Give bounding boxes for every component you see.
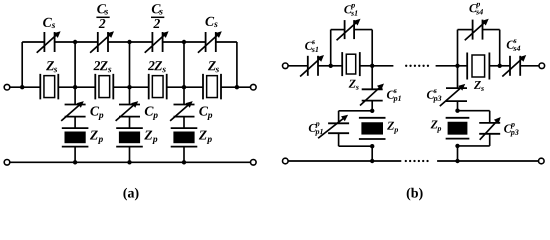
crystal resonator Zp (shunt 1, a) [62,128,89,147]
wire: parallel loop bottom (b right) [458,145,490,147]
terminal: output right (b) main line [539,63,545,69]
variable capacitor Cs4^p (top loop right, b) [465,19,489,41]
junction: bottom rail node 1 (a) [73,160,77,164]
junction: top wire node 2 (a) [127,40,131,44]
crystal resonator Zs #1 (a) [40,74,58,100]
junction: node B (b) [370,64,374,68]
wire: shunt 2 stub main-to-Cp (a) [129,87,131,104]
label Cs (fourth cap, a) [205,17,217,27]
wire: riser at node A (b left loop) [330,30,332,66]
crystal resonator Zs #4 (a) [203,74,221,100]
wire: node B rightward stub (b) [372,65,393,67]
wire: leftward stub of node B-prime (b) [436,65,458,67]
junction: bottom of parallel pair (b left) [370,144,374,148]
variable capacitor Cs (fourth, a) [198,31,222,53]
junction: node A-prime (b) [498,64,502,68]
junction: main line node 4 (a) [235,85,239,89]
wire: riser at node 1 top-to-main (a) [74,42,76,87]
wire: node B down to Cp1s (b) [371,66,373,90]
wire: left riser of top branch (a) [21,42,23,87]
wire: parallel loop top (b left) [339,110,373,112]
variable capacitor Cp1^s (shunt left, b) [360,84,384,106]
label Cp3^p (b) [504,123,518,136]
crystal resonator Zs (b right) [467,53,489,80]
wire: riser at node 3 top-to-main (a) [183,42,185,87]
wire: Cp1s to parallel pair (b left) [371,101,373,111]
junction: top wire node 3 (a) [182,40,186,44]
wire: top loop right segment (b right) [483,29,500,31]
wire: parallel loop lower riser (b left) [338,133,340,146]
label Zs (crystal 1, a) [46,61,57,72]
wire: shunt 1 Cp-to-Zp (a) [74,117,76,129]
wire: shunt 3 stub main-to-Cp (a) [183,87,185,104]
wire: top wire segment 1 right of cap [55,41,76,43]
junction: top of parallel pair (b left) [370,109,374,113]
wire: crystal 2Zs #3 to crystal Zs #4 [167,86,203,88]
wire: parallel loop upper riser (b left) [338,111,340,124]
wire: shunt 3 Zp-to-rail (a) [183,147,185,163]
crystal resonator 2Zs #3 (a) [149,74,167,100]
wire: parallel loop upper riser (b right) [489,111,491,123]
terminal: input left (a) bottom rail [4,160,10,166]
wire: node A to crystal Zs (b left) [331,65,343,67]
wire: riser at node 2 top-to-main (a) [129,42,131,87]
crystal resonator Zp (b right) [446,118,470,139]
label Cp1^s (b) [387,89,401,102]
wire: Cs4s to right terminal (b) [520,65,539,67]
wire: riser at node B-prime (b right loop) [457,30,459,66]
wire: top wire segment 3 right of cap [163,41,184,43]
variable capacitor Cp (shunt 3, a) [170,101,194,121]
wire: top wire segment 4 left of cap [184,41,206,43]
label Zp (b left) [387,122,398,134]
ellipsis dots on main line (b) [405,65,429,67]
junction: bottom of parallel pair (b right) [455,144,459,148]
variable capacitor Cp1^p (parallel, b left) [318,115,349,138]
wire: shunt to bottom rail (b left) [371,146,373,161]
ellipsis dots on bottom rail (b) [405,160,429,162]
wire: parallel loop bottom (b left) [339,145,373,147]
wire: top wire segment 2 left of cap [75,41,98,43]
wire: top wire segment 4 right of cap [216,41,237,43]
terminal: input left (a) main line [4,84,10,90]
label Zp (b right) [431,121,442,133]
label Cs4^s (b) [507,39,521,51]
wire: bottom rail right segment (b) [437,160,538,162]
wire: Cp3s to parallel pair (b right) [457,101,459,111]
variable capacitor Cs1^p (top loop left, b) [337,19,361,41]
junction: bottom rail node 3 (a) [182,160,186,164]
junction: main line node 1 (a) [73,85,77,89]
crystal resonator 2Zs #2 (a) [95,74,113,100]
wire: top wire segment 3 left of cap [130,41,153,43]
wire: left terminal to crystal Zs #1 [10,86,41,88]
wire: node B-prime down to Cp3s (b) [457,66,459,88]
label Cs4^p (b) [469,3,483,15]
label Cp (shunt at node 2, a) [145,107,158,121]
wire: shunt 1 stub main-to-Cp (a) [74,87,76,104]
wire: shunt 1 Zp-to-rail (a) [74,147,76,163]
junction: main line node 0 (a) [20,85,24,89]
label Cs1^s (b) [305,40,318,52]
wire: left terminal to Cs1s (b) [288,65,308,67]
label Cp3^s (b) [427,89,441,102]
wire: shunt to bottom rail (b right) [457,146,459,161]
wire: right riser of top branch (a) [236,42,238,87]
junction: bottom rail node 2 (a) [127,160,131,164]
variable capacitor Cs/2 (second, a) [90,31,114,53]
terminal: output right (b) bottom rail [539,158,545,164]
wire: top loop right segment (b left) [354,29,372,31]
junction: node B-prime (b) [455,64,459,68]
label Zp (shunt at node 1, a) [90,131,103,144]
wire: shunt 2 Zp-to-rail (a) [129,147,131,163]
junction: bottom rail (b left) [370,159,374,163]
caption (b) [407,188,423,201]
variable capacitor Cs1^s (series left, b) [300,55,324,77]
wire: node A-prime to Cs4s (b) [500,65,510,67]
label Cp (shunt at node 1, a) [90,107,103,121]
caption (a) [123,188,138,201]
label Zs (b right) [474,81,484,91]
terminal: output right (a) bottom rail [251,160,257,166]
terminal: output right (a) main line [251,84,257,90]
wire: parallel loop lower riser (b right) [489,134,491,146]
variable capacitor Cp (shunt 2, a) [116,101,140,121]
wire: riser at node B (b left loop) [371,30,373,66]
label Zp (shunt at node 2, a) [144,131,157,144]
label Cs/2 fraction (cap at x=103, a) [97,4,108,28]
junction: node A (b) [329,64,333,68]
label 2Zs (crystal 2, a) [93,61,111,72]
wire: crystal 2Zs #2 to crystal 2Zs #3 [113,86,148,88]
label 2Zs (crystal 3, a) [148,61,166,72]
wire: top loop left segment (b left) [331,29,345,31]
junction: top of parallel pair (b right) [455,109,459,113]
junction: main line node 2 (a) [127,85,131,89]
label Cp (shunt at node 3, a) [199,107,212,121]
wire: crystal Zs #1 to crystal 2Zs #2 [58,86,95,88]
variable capacitor Cp3^s (shunt right, b) [440,84,467,106]
label Zs (crystal 4, a) [208,61,219,72]
label Cs (first cap, a) [43,18,55,28]
wire: riser at node A-prime (b right loop) [499,30,501,66]
junction: bottom rail (b right) [455,159,459,163]
variable capacitor Cs (first, a) [37,31,61,53]
crystal resonator Zp (shunt 2, a) [116,128,143,147]
variable capacitor Cp (shunt 1, a) [61,101,85,121]
label Cs/2 fraction (cap at x=158, a) [152,4,163,28]
label Zs (b left) [349,80,359,90]
wire: shunt 2 Cp-to-Zp (a) [129,117,131,129]
wire: crystal Zs to node B (b left) [360,65,372,67]
wire: parallel loop top (b right) [458,110,490,112]
label Cp1^p (b) [309,122,323,135]
variable capacitor Cs4^s (series right, b) [502,55,526,77]
wire: shunt 3 Cp-to-Zp (a) [183,117,185,129]
variable capacitor Cp3^p (parallel, b right) [479,117,501,140]
wire: Cs1s to node A (b) [318,65,331,67]
crystal resonator Zp (shunt 3, a) [171,128,198,147]
junction: main line node 3 (a) [182,85,186,89]
wire: top wire segment 2 right of cap [108,41,130,43]
label Zp (shunt at node 3, a) [199,131,212,144]
wire: node B-prime to crystal Zs (b right) [458,65,468,67]
variable capacitor Cs/2 (third, a) [145,31,169,53]
crystal resonator Zp (b left) [359,118,386,139]
junction: top wire node 1 (a) [73,40,77,44]
terminal: input left (b) main line [283,63,289,69]
wire: crystal Zs to node A-prime (b right) [489,65,499,67]
crystal resonator Zs (b left) [342,52,360,76]
terminal: input left (b) bottom rail [283,158,289,164]
wire: top wire segment 1 left of cap [22,41,44,43]
wire: top loop left segment (b right) [458,29,473,31]
wire: crystal Zs #4 to right terminal [221,86,250,88]
label Cs1^p (b) [344,4,357,16]
wire: bottom rail left segment (b) [288,160,401,162]
wire: bottom rail (a) [10,161,250,163]
